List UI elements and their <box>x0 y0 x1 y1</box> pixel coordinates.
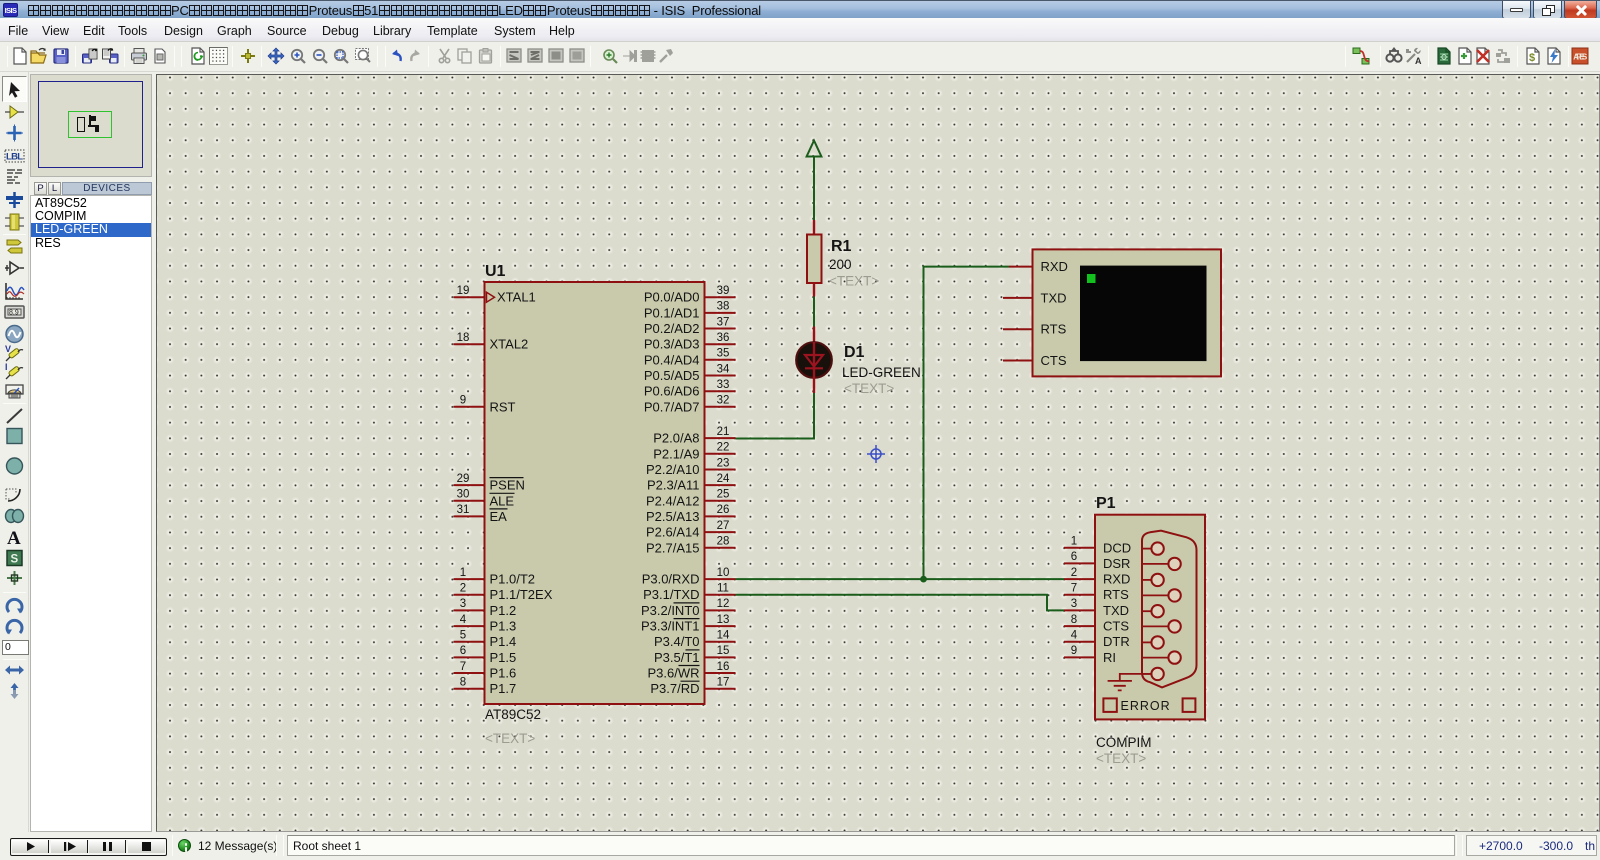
svg-text:P1.1/T2EX: P1.1/T2EX <box>490 587 553 602</box>
svg-text:A: A <box>7 528 21 547</box>
P1 DB9 hole 7 <box>1143 589 1181 601</box>
svg-text:U1: U1 <box>485 263 506 280</box>
svg-text:P1.4: P1.4 <box>490 634 517 649</box>
U1 pin 16 (P3.6/WR) <box>647 661 735 681</box>
svg-text:23: 23 <box>717 457 730 469</box>
origin marker <box>867 445 885 463</box>
U1 pin 30 (ALE) <box>454 489 515 509</box>
svg-text:2: 2 <box>460 583 466 595</box>
ground symbol <box>1108 674 1152 691</box>
svg-text:P1.2: P1.2 <box>490 603 517 618</box>
svg-text:9: 9 <box>460 395 466 407</box>
svg-text:27: 27 <box>717 520 730 532</box>
U1 pin 8 (P1.7) <box>454 677 517 697</box>
P1 pin 2 (RXD) <box>1064 567 1130 587</box>
svg-text:P2.5/A13: P2.5/A13 <box>646 509 700 524</box>
svg-text:DTR: DTR <box>1103 634 1130 649</box>
svg-text:P3.3/INT1: P3.3/INT1 <box>641 619 700 634</box>
U1 pin 10 (P3.0/RXD) <box>642 567 736 587</box>
U1 pin 25 (P2.4/A12) <box>646 489 736 509</box>
svg-text:P0.0/AD0: P0.0/AD0 <box>644 290 700 305</box>
svg-text:4: 4 <box>1071 630 1078 642</box>
wire D1 to U1 pin 21 (P2.0/A8) <box>736 393 815 439</box>
P1 pin 1 (DCD) <box>1064 536 1131 556</box>
U1 pin 1 (P1.0/T2) <box>454 567 536 587</box>
U1 pin 12 (P3.2/INT0) <box>641 598 736 618</box>
U1 pin 11 (P3.1/TXD) <box>643 583 735 603</box>
terminal pin TXD <box>1003 297 1033 299</box>
U1 pin 13 (P3.3/INT1) <box>641 614 736 634</box>
svg-text:P3.0/RXD: P3.0/RXD <box>642 572 700 587</box>
svg-text:P0.6/AD6: P0.6/AD6 <box>644 384 700 399</box>
svg-text:3: 3 <box>1071 598 1077 610</box>
virtual terminal instrument <box>1033 249 1222 376</box>
U1 pin 23 (P2.2/A10) <box>646 457 736 477</box>
svg-text:<TEXT>: <TEXT> <box>1096 751 1146 766</box>
U1 pin 17 (P3.7/RD) <box>650 677 735 697</box>
U1 pin 34 (P0.5/AD5) <box>644 363 736 383</box>
svg-text:6: 6 <box>460 645 466 657</box>
svg-text:14: 14 <box>717 630 730 642</box>
svg-text:P3.7/RD: P3.7/RD <box>650 681 699 696</box>
svg-text:33: 33 <box>717 379 730 391</box>
U1 pin 39 (P0.0/AD0) <box>644 285 736 305</box>
svg-text:CTS: CTS <box>1041 353 1067 368</box>
svg-text:1: 1 <box>460 567 466 579</box>
svg-text:P2.0/A8: P2.0/A8 <box>653 431 699 446</box>
svg-text:8: 8 <box>1071 614 1077 626</box>
svg-text:31: 31 <box>457 504 470 516</box>
svg-text:24: 24 <box>717 473 730 485</box>
svg-text:34: 34 <box>717 363 730 375</box>
svg-text:LED-GREEN: LED-GREEN <box>842 365 921 380</box>
svg-text:I: I <box>5 362 8 372</box>
U1 pin 38 (P0.1/AD1) <box>644 301 736 321</box>
P1 DB9 hole 3 <box>1143 605 1164 617</box>
svg-text:35: 35 <box>717 348 730 360</box>
P1 pin 7 (RTS) <box>1064 583 1129 603</box>
svg-text:P1.0/T2: P1.0/T2 <box>490 572 536 587</box>
svg-text:P0.5/AD5: P0.5/AD5 <box>644 368 700 383</box>
terminal pin RXD stub <box>1009 266 1033 268</box>
P1 DB9 hole 2 <box>1143 574 1164 586</box>
svg-text:DSR: DSR <box>1103 556 1130 571</box>
U1 pin 35 (P0.4/AD4) <box>644 348 736 368</box>
svg-text:XTAL2: XTAL2 <box>490 337 529 352</box>
U1 pin 27 (P2.6/A14) <box>646 520 736 540</box>
U1 pin 2 (P1.1/T2EX) <box>454 583 553 603</box>
svg-text:7: 7 <box>1071 583 1077 595</box>
power symbol (VCC arrow) <box>807 141 822 157</box>
svg-text:13: 13 <box>717 614 730 626</box>
svg-text:R1: R1 <box>831 238 852 255</box>
svg-text:18: 18 <box>457 332 470 344</box>
P1 pin 8 (CTS) <box>1064 614 1129 634</box>
terminal pin CTS <box>1003 360 1033 362</box>
svg-text:<TEXT>: <TEXT> <box>844 381 894 396</box>
svg-text:P2.6/A14: P2.6/A14 <box>646 525 700 540</box>
svg-text:S: S <box>11 554 19 566</box>
svg-text:9: 9 <box>1071 645 1077 657</box>
svg-text:P3.2/INT0: P3.2/INT0 <box>641 603 700 618</box>
svg-text:1: 1 <box>1071 536 1077 548</box>
P1 indicator square right <box>1183 698 1196 712</box>
U1 pin 3 (P1.2) <box>454 598 517 618</box>
P1 DB9 hole 1 <box>1143 542 1164 554</box>
svg-text:V: V <box>5 344 11 354</box>
wire terminal RXD to junction <box>924 267 1010 579</box>
svg-text:RST: RST <box>490 399 516 414</box>
svg-text:200: 200 <box>829 257 852 272</box>
svg-text:6: 6 <box>1071 551 1077 563</box>
svg-text:P3.6/WR: P3.6/WR <box>647 666 699 681</box>
svg-text:COMPIM: COMPIM <box>1096 735 1152 750</box>
svg-text:<TEXT>: <TEXT> <box>829 274 879 289</box>
svg-text:P2.2/A10: P2.2/A10 <box>646 462 700 477</box>
U1 pin 19 (XTAL1) <box>454 285 536 305</box>
svg-text:32: 32 <box>717 395 730 407</box>
svg-text:EA: EA <box>490 509 508 524</box>
P1 DB9 hole 6 <box>1143 558 1181 570</box>
svg-text:26: 26 <box>717 504 730 516</box>
terminal pin RTS <box>1003 328 1033 330</box>
svg-text:RI: RI <box>1103 650 1116 665</box>
wire U1 P3.0/RXD to P1 RXD <box>736 578 1065 580</box>
svg-text:P0.2/AD2: P0.2/AD2 <box>644 321 700 336</box>
P1 DB9 hole 5 <box>1143 668 1164 680</box>
svg-text:12: 12 <box>717 598 730 610</box>
U1 pin 28 (P2.7/A15) <box>646 536 736 556</box>
svg-text:P3.1/TXD: P3.1/TXD <box>643 587 699 602</box>
svg-text:15: 15 <box>717 645 730 657</box>
svg-text:39: 39 <box>717 285 730 297</box>
U1 pin 37 (P0.2/AD2) <box>644 316 736 336</box>
svg-text:P1.3: P1.3 <box>490 619 517 634</box>
svg-text:19: 19 <box>457 285 470 297</box>
svg-text:XTAL1: XTAL1 <box>497 290 536 305</box>
U1 pin 4 (P1.3) <box>454 614 517 634</box>
svg-text:P1.6: P1.6 <box>490 666 517 681</box>
svg-text:RTS: RTS <box>1041 322 1067 337</box>
svg-text:$: $ <box>1529 52 1535 64</box>
wire R1 to D1 <box>813 297 815 327</box>
svg-text:D1: D1 <box>844 344 865 361</box>
svg-text:RXD: RXD <box>1041 259 1068 274</box>
U1 pin 14 (P3.4/T0) <box>654 630 736 650</box>
P1 DB9 hole 4 <box>1143 636 1164 648</box>
svg-text:P0.4/AD4: P0.4/AD4 <box>644 352 700 367</box>
U1 pin 7 (P1.6) <box>454 661 517 681</box>
svg-text:ALE: ALE <box>490 493 515 508</box>
svg-text:P2.4/A12: P2.4/A12 <box>646 493 700 508</box>
U1 pin 31 (EA) <box>454 504 508 524</box>
svg-text:37: 37 <box>717 316 730 328</box>
U1 pin 26 (P2.5/A13) <box>646 504 736 524</box>
svg-text:P1: P1 <box>1096 495 1116 512</box>
svg-text:TXD: TXD <box>1041 290 1067 305</box>
svg-text:A: A <box>1415 56 1422 65</box>
svg-text:8: 8 <box>460 677 466 689</box>
svg-text:RXD: RXD <box>1103 572 1130 587</box>
svg-text:P3.4/T0: P3.4/T0 <box>654 634 700 649</box>
svg-text:22: 22 <box>717 442 730 454</box>
svg-text:DCD: DCD <box>1103 540 1131 555</box>
svg-text:P0.7/AD7: P0.7/AD7 <box>644 399 700 414</box>
svg-text:P2.3/A11: P2.3/A11 <box>647 478 700 493</box>
svg-text:P0.1/AD1: P0.1/AD1 <box>644 305 700 320</box>
P1 pin 4 (DTR) <box>1064 630 1130 650</box>
svg-text:11: 11 <box>717 583 729 595</box>
svg-text:10: 10 <box>717 567 730 579</box>
svg-text:RTS: RTS <box>1103 587 1129 602</box>
svg-text:7: 7 <box>460 661 466 673</box>
U1 pin 18 (XTAL2) <box>454 332 529 352</box>
svg-text:P0.3/AD3: P0.3/AD3 <box>644 337 700 352</box>
svg-text:P2.1/A9: P2.1/A9 <box>653 446 699 461</box>
U1 pin 36 (P0.3/AD3) <box>644 332 736 352</box>
svg-text:TXD: TXD <box>1103 603 1129 618</box>
U1 pin 15 (P3.5/T1) <box>654 645 736 665</box>
U1 pin 21 (P2.0/A8) <box>653 426 735 446</box>
svg-text:38: 38 <box>717 301 730 313</box>
svg-text:ERROR: ERROR <box>1121 699 1171 713</box>
svg-text:21: 21 <box>717 426 730 438</box>
svg-text:36: 36 <box>717 332 730 344</box>
P1 DB9 hole 9 <box>1143 651 1181 663</box>
svg-text:2: 2 <box>1071 567 1077 579</box>
svg-text:AT89C52: AT89C52 <box>485 707 541 722</box>
U1 pin 22 (P2.1/A9) <box>653 442 735 462</box>
svg-text:5: 5 <box>460 630 466 642</box>
P1 pin 9 (RI) <box>1064 645 1116 665</box>
svg-text:<TEXT>: <TEXT> <box>485 731 535 746</box>
wire U1 P3.1/TXD to P1 TXD <box>736 595 1065 611</box>
svg-text:CTS: CTS <box>1103 619 1129 634</box>
svg-text:P3.5/T1: P3.5/T1 <box>654 650 700 665</box>
U1 pin 29 (PSEN) <box>454 473 525 493</box>
resistor R1 <box>807 220 822 297</box>
P1 pin 6 (DSR) <box>1064 551 1130 571</box>
svg-text:29: 29 <box>457 473 470 485</box>
connector P1 COMPIM body <box>1095 515 1205 720</box>
svg-text:8.9: 8.9 <box>9 310 19 317</box>
svg-text:3: 3 <box>460 598 466 610</box>
svg-text:16: 16 <box>717 661 730 673</box>
U1 pin 33 (P0.6/AD6) <box>644 379 736 399</box>
U1 pin 32 (P0.7/AD7) <box>644 395 736 415</box>
svg-text:30: 30 <box>457 489 470 501</box>
svg-text:28: 28 <box>717 536 730 548</box>
wire power to R1 <box>813 157 815 221</box>
svg-text:P2.7/A15: P2.7/A15 <box>646 540 700 555</box>
svg-text:17: 17 <box>717 677 730 689</box>
U1 pin 5 (P1.4) <box>454 630 517 650</box>
U1 pin 24 (P2.3/A11) <box>647 473 736 493</box>
svg-text:P1.7: P1.7 <box>490 681 517 696</box>
U1 pin 9 (RST) <box>454 395 516 415</box>
svg-text:ARES: ARES <box>1573 53 1588 62</box>
P1 DB9 connector shape <box>1142 531 1197 688</box>
P1 indicator square left <box>1103 698 1116 712</box>
led D1 <box>796 327 832 394</box>
P1 DB9 hole 8 <box>1143 620 1181 632</box>
svg-text:P1.5: P1.5 <box>490 650 517 665</box>
IC U1 AT89C52 body <box>485 282 705 704</box>
svg-text:PSEN: PSEN <box>490 478 525 493</box>
svg-text:LBL: LBL <box>6 152 23 163</box>
svg-text:25: 25 <box>717 489 730 501</box>
P1 pin 3 (TXD) <box>1064 598 1129 618</box>
junction node <box>920 576 927 583</box>
svg-text:4: 4 <box>460 614 467 626</box>
U1 pin 6 (P1.5) <box>454 645 517 665</box>
